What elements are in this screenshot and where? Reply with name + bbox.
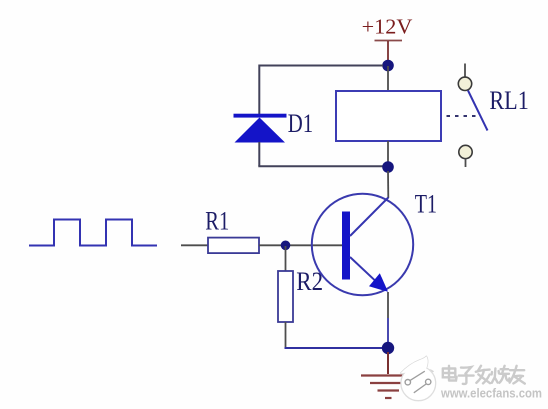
wire top loop to diode bbox=[259, 66, 383, 115]
ground bar 3 bbox=[378, 389, 400, 391]
ground bar 4 bbox=[385, 397, 392, 399]
junction dot node D (ground node) bbox=[382, 342, 394, 354]
relay contact terminal top bbox=[458, 77, 471, 90]
svg-text:RL1: RL1 bbox=[489, 86, 528, 115]
svg-text:T1: T1 bbox=[415, 190, 437, 219]
relay actuator dotted link bbox=[447, 115, 477, 117]
wire R2 to emitter node bbox=[285, 347, 385, 349]
diode D1 cathode bar bbox=[234, 114, 287, 118]
resistor R2 bbox=[278, 271, 293, 322]
switch blade bbox=[468, 91, 488, 131]
watermark logo blob bbox=[401, 356, 436, 400]
relay RL1 coil bbox=[336, 91, 441, 141]
wire dot B to collector bbox=[387, 171, 389, 198]
svg-text:www.elecfans.com: www.elecfans.com bbox=[440, 387, 542, 401]
wire R2 bottom stem bbox=[285, 322, 287, 348]
transistor T1 circle bbox=[312, 194, 413, 295]
wire diode anode down bbox=[258, 142, 260, 166]
wire +12V stem bbox=[387, 41, 389, 62]
watermark text (stylized CJK drawn as strokes) bbox=[443, 366, 525, 384]
wire dot A to relay top bbox=[387, 66, 389, 91]
wire relay bottom to dot B bbox=[387, 141, 389, 163]
svg-text:R1: R1 bbox=[205, 207, 229, 236]
resistor R1 bbox=[208, 238, 259, 254]
junction dot node B bbox=[382, 161, 394, 173]
svg-text:+12V: +12V bbox=[362, 15, 413, 39]
ground stem bbox=[387, 352, 389, 374]
power rail bar bbox=[375, 40, 403, 42]
wire emitter to dot D bbox=[387, 318, 389, 344]
square wave input signal bbox=[29, 220, 157, 246]
ground bar 1 bbox=[361, 374, 415, 376]
relay contact terminal bottom bbox=[459, 145, 472, 158]
wire R1 to base bbox=[259, 244, 343, 246]
relay contact stub top bbox=[464, 64, 466, 78]
diode D1 triangle bbox=[235, 118, 286, 143]
relay contact stub bottom bbox=[465, 159, 467, 167]
wire bottom loop to dot B bbox=[258, 165, 384, 167]
ground bar 2 bbox=[370, 382, 406, 384]
wire dot C to R2 bbox=[285, 246, 287, 271]
svg-text:D1: D1 bbox=[288, 109, 313, 138]
transistor T1 collector line bbox=[350, 198, 388, 237]
wire input to R1 bbox=[181, 244, 208, 246]
transistor T1 base bar bbox=[342, 212, 350, 280]
junction dot node C (base) bbox=[281, 241, 291, 251]
transistor T1 emitter arrow bbox=[369, 273, 388, 292]
transistor T1 emitter line bbox=[350, 257, 383, 288]
junction dot node A (top) bbox=[382, 60, 394, 72]
wire emitter down bbox=[387, 292, 389, 318]
